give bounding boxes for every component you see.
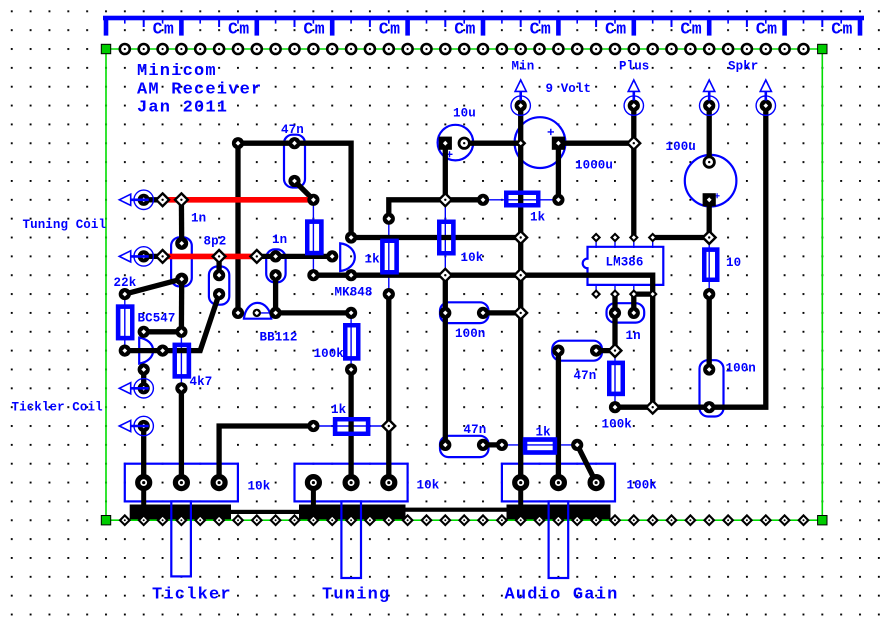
wire row11 to MK848 left [257,254,332,259]
junction row16 col27 [609,344,622,357]
svg-text:BB112: BB112 [260,331,298,345]
wire LM386 pin to col32 [653,235,710,240]
pad C2 top [175,237,188,250]
transistor BC547 Q1 outline [139,338,153,364]
ring pad 10u right [459,138,469,148]
board corner marker bottom-left [101,516,110,525]
svg-text:LM386: LM386 [606,256,644,270]
pad C2 bottom [175,273,188,286]
pad C1 top [288,137,300,149]
pad R8 left [307,420,319,432]
pad R7 right [552,194,564,206]
pad BB112 center [253,309,261,317]
pad MK848 pin1 [326,250,338,262]
bus link bar1-bar2 [225,510,305,514]
svg-text:4k7: 4k7 [190,375,213,389]
pad R3 top (red end) [307,194,319,206]
svg-text:Cm: Cm [153,20,176,39]
wire BC547 bottom to tickler pad [141,370,146,389]
svg-text:Minicom: Minicom [137,62,217,81]
pad MK848 pin3 [345,269,357,281]
junction row11 col8 [250,250,263,263]
wire col7/row5/col13 trunk [238,143,351,313]
lead 100k R10 [614,351,616,408]
svg-text:100k: 100k [602,418,633,432]
svg-text:Tickler Coil: Tickler Coil [12,401,103,415]
pad R2 bottom [175,382,187,394]
connector arrow tuning coil B [119,247,153,266]
pin LM386 bottom col27 [610,289,620,299]
op-amp IC LM386 U2 body [583,247,664,285]
svg-text:1000u: 1000u [575,159,613,173]
ruler (Cm scale) [103,16,864,36]
board outline (green) [106,49,822,520]
pad R11 bottom [703,288,715,300]
svg-text:100k: 100k [314,347,345,361]
wire BC547 top to 4k7 top [144,329,182,334]
svg-text:47n: 47n [464,423,487,437]
wire row12 bus into LM386 [313,275,652,294]
pad C7 left [552,345,564,357]
wire tuning-coil pad A stub [144,197,163,202]
svg-text:1k: 1k [536,426,552,440]
resistor 10k R5 body (col18) [439,222,453,254]
svg-text:8p2: 8p2 [204,235,227,249]
pin LM386 top col26 [591,233,601,243]
pad tickler coil A [138,382,150,394]
pot P1 pad L [138,477,150,489]
lead 22k R1 [124,294,126,351]
wire col29 down [650,294,655,407]
pointer shaft P2 [341,501,361,578]
capacitor 47n C7 body (right) [552,341,602,361]
square pad 100u bottom [703,193,716,206]
board corner marker bottom-right [818,516,827,525]
board corner marker top-right [818,44,827,53]
pad R9 left [496,439,508,451]
pad Spkr connector A [703,100,715,112]
wire LM386 pins 28-29 bottom [634,291,653,296]
wire Spkr A to 100u top [707,106,712,163]
pad C9 top [703,363,715,375]
pad C4 top [270,250,282,262]
wire row20 to pot P1 right [219,426,313,483]
pad C9 bottom [703,401,715,413]
wire tuning-coil pad B stub [144,254,163,259]
junction row10 col22 [514,231,527,244]
capacitor 100n C5 body (mid) [440,302,489,323]
svg-text:10: 10 [726,256,741,270]
pad R1 bottom [119,345,131,357]
capacitor 1n C4 body (col9) [266,249,285,282]
pad C6 right [477,439,489,451]
potentiometer 100k P3 body [502,464,615,502]
svg-text:Cm: Cm [303,20,326,39]
pad Plus connector [628,100,640,112]
connector arrow Spkr B [756,80,775,115]
svg-text:Cm: Cm [530,20,553,39]
pad 100k R6 top [345,307,357,319]
svg-text:1n: 1n [272,233,287,247]
pin LM386 top col28 [629,233,639,243]
pad C8 right [628,307,640,319]
lead 1k R4 [388,219,390,294]
lead 1k R8 [313,425,388,427]
red wire row11 (tuning coil link) [163,254,257,260]
junction row8 col18 [439,193,452,206]
wire C1 bottom diagonal to red end [295,181,314,200]
resistor 10 R11 body (col32) [704,250,717,280]
electrolytic 100u C12 body [685,155,737,207]
square pad 1000u right [552,137,565,150]
wire 100k bottom to pot P2 mid [348,370,353,483]
ring pad 100u top [704,157,714,167]
wire Min rail col22 [518,106,523,483]
lead 10k R5 [444,200,446,275]
pointer shaft P3 [549,501,569,578]
pot P2 pad R [383,477,395,489]
ground bus bar under Audio Gain pot [507,505,611,521]
pad R1 top [119,288,131,300]
pad tuning coil B [138,250,150,262]
red wire row8 (tuning coil link) [163,197,314,203]
svg-text:1k: 1k [365,253,381,267]
wire C6 right stub [483,442,502,447]
pad 10u plus-lead ring [458,137,470,149]
resistor outlines over wires [118,193,717,453]
electrolytic 10u C10 body [438,125,474,161]
resistor 4k7 R2 body [175,345,189,377]
pad BC547 b [138,326,150,338]
connector arrow Plus [624,80,643,115]
pad C5 left [439,307,451,319]
svg-text:47n: 47n [574,369,597,383]
wire LM386 pin28 to C8 [631,294,636,313]
pad corner col7 row5 [232,137,244,149]
ground bus bar under Tuning pot [299,505,406,521]
resistor 100k R6 body (col13) [345,325,358,358]
wire Plus rail col28 [631,106,636,238]
electrolytic 1000u C11 body [515,117,566,168]
pot P2 pad M [345,477,357,489]
pad C1 bottom [288,175,300,187]
wire 4k7 bottom to pot P1 mid [179,388,184,482]
junction row19 col29 [646,401,659,414]
pad C5 right [477,307,489,319]
wire stub P2 left to bus [311,483,316,516]
wire 10u left down [443,143,448,200]
svg-text:100u: 100u [666,140,696,154]
svg-text:10k: 10k [248,480,271,494]
varicap BB112 D1 outline [244,303,271,319]
junction row11 col3 [156,250,169,263]
lead 100k R6 [350,313,352,370]
pad Min connector [515,100,527,112]
capacitor 8p2 C3 body [209,267,229,305]
svg-text:Cm: Cm [831,20,854,39]
pointer shaft P1 [171,501,191,576]
pot P1 pad R [213,477,225,489]
junction row14 col22 [514,307,527,320]
pin LM386 bottom col28 [629,289,639,299]
svg-text:10k: 10k [461,251,484,265]
resistor R3 body (col11) [307,222,321,254]
lead 4k7 R2 [180,332,182,389]
lead 1k R9 [502,444,577,446]
svg-text:100n: 100n [726,362,756,376]
svg-text:1k: 1k [530,211,546,225]
svg-text:Tuning: Tuning [322,586,390,605]
pad R4 bottom [383,288,395,300]
svg-text:Min: Min [512,60,535,74]
capacitor 1n C8 body (below LM386) [607,303,645,322]
junction row8 col4 [175,193,188,206]
pad BB112 k [270,307,282,319]
pad C6 left [439,439,451,451]
svg-text:Cm: Cm [454,20,477,39]
plus mark 1000u [548,129,554,135]
ground bus bar under Ticlker pot [130,505,231,521]
svg-text:Spkr: Spkr [728,60,758,74]
wire C4 bottom to BB112 right [273,275,278,313]
wire C7 left to pot P3 mid [556,351,561,483]
pad C7 right [590,345,602,357]
junction row20 col15 [382,420,395,433]
lead BB112 center [257,312,276,314]
svg-text:9 Volt: 9 Volt [546,82,592,96]
pad MK848 pin2 [345,231,357,243]
resistor 1k R4 body (col15) [382,241,396,272]
pad C3 bottom [213,288,225,300]
svg-text:Jan 2011: Jan 2011 [137,99,228,118]
pot P1 pad M [175,477,187,489]
junction row12 col18 [439,269,452,282]
bus link bar2-bar3 [400,508,512,512]
connector arrow tuning coil A [119,190,153,209]
resistor 1k R9 body (row21) [525,440,555,453]
wire C8 left down [612,313,617,351]
pad BC547 e [138,363,150,375]
IC MK848 U1 outline [340,243,355,271]
pad R9 right [571,439,583,451]
svg-text:100k: 100k [627,479,658,493]
pad R3 bottom [307,269,319,281]
capacitor 47n C6 body (bottom) [440,436,489,457]
lead 1k R7 [483,199,558,201]
wire row8 junction to C2 top [179,200,185,244]
board corner marker top-left [101,44,110,53]
wire 22k top diagonal to C2 bottom [125,279,182,294]
bottom border hole row (diamonds) [120,515,808,525]
resistor 100k R10 body (col27) [609,363,623,394]
wire R4 bottom to pot P2 right [386,294,391,483]
wire 1k R9 to pot P3 right diagonal [577,445,596,483]
pad C4 bottom [270,269,282,281]
svg-text:1n: 1n [626,329,641,343]
pad C8 left [609,307,621,319]
wire row10 MK848 to col22 [351,235,521,240]
svg-text:BC547: BC547 [138,312,176,326]
diamond pad 1000u left [515,138,526,149]
svg-text:Cm: Cm [228,20,251,39]
junction row12 col22 [514,269,527,282]
wire 8p2 bottom diagonal to row16 [125,294,219,351]
pad BC547 c [157,345,169,357]
junction row10 col32 [703,231,716,244]
wire tickler pad B to pot P1 left [141,426,146,483]
svg-text:10k: 10k [417,479,440,493]
pad R2 top [175,326,187,338]
wire row19 and Spkr B rail [615,106,766,408]
pad Spkr connector B [760,100,772,112]
pad tuning coil A [138,194,150,206]
pin LM386 top col27 [610,233,620,243]
plus mark 100u [715,193,720,198]
pad BB112 a [232,307,244,319]
wire stub P3 left to bus [518,483,523,516]
capacitor 100n C9 body (right) [700,360,724,416]
wire 1000u right down to 1k [556,143,561,200]
resistor 22k R1 body [118,307,132,339]
wire red bus to 8p2 top [216,256,221,275]
potentiometer 10k P2 body [295,464,408,502]
capacitor 47n C1 body (top) [284,135,305,188]
svg-text:47n: 47n [281,123,304,137]
capacitor 1n C2 body (col4) [171,237,192,286]
pad R4 top [383,213,395,225]
pin LM386 bottom col26 [591,289,601,299]
svg-text:22k: 22k [114,276,137,290]
resistor 1k R7 body (row8) [506,193,538,206]
pad 100k R6 bottom [345,363,357,375]
wire row8 corner to R4 top [389,200,483,219]
plus mark 10u [447,151,453,157]
pad C3 top [213,269,225,281]
wire 1000u right to plus node [558,141,633,146]
svg-text:10u: 10u [453,107,476,121]
svg-text:Cm: Cm [379,20,402,39]
wire R11 bottom to C9 top [707,294,712,369]
svg-text:1k: 1k [331,403,347,417]
svg-text:Audio Gain: Audio Gain [505,586,619,605]
pad tickler coil B [138,420,150,432]
wire 10u right to 1000u left [464,141,521,146]
junction row8 col3 [156,193,169,206]
connector arrow tickler coil A [119,379,153,398]
pin LM386 bottom col29 [648,289,658,299]
square pad 10u left [439,137,452,150]
pin LM386 top col29 [648,233,658,243]
pot P2 pad L [307,477,319,489]
svg-text:Ticlker: Ticlker [152,586,232,605]
wire C7 right to junction [596,348,615,353]
junction row5 col28 [627,137,640,150]
pot P3 pad R [590,477,602,489]
connector arrow tickler coil B [119,416,153,435]
wire stub P1 left to bus [141,483,146,516]
wire LM386 pin27 to C8 [612,294,617,313]
wire C5 right to col22 [483,310,521,315]
wire C2 bottom to 4k7 top [179,279,185,332]
pot P3 pad M [552,477,564,489]
svg-text:MK848: MK848 [335,286,373,300]
svg-text:Cm: Cm [756,20,779,39]
resistor 1k R8 body (row20) [335,419,368,434]
svg-text:Plus: Plus [619,60,649,74]
lead R3 [312,200,314,275]
svg-text:Tuning Coil: Tuning Coil [23,218,107,232]
potentiometer 10k P1 body [125,464,238,502]
wire 100u bottom to junction [707,200,712,238]
top border hole row [120,44,809,54]
pad R7 left [477,194,489,206]
junction row11 col6 [213,250,226,263]
pad R10 bottom [609,401,621,413]
connector arrow Spkr A [700,80,719,115]
pot P3 pad L [515,477,527,489]
svg-text:Cm: Cm [605,20,628,39]
wire col18 vertical [443,275,448,445]
svg-text:100n: 100n [455,327,485,341]
svg-text:1n: 1n [191,212,206,226]
wire row14 BB112 to 100k [276,310,352,315]
svg-text:Cm: Cm [680,20,703,39]
lead 10 R11 [708,238,710,295]
connector arrow Min [511,80,530,115]
svg-text:AM Receiver: AM Receiver [137,81,262,100]
